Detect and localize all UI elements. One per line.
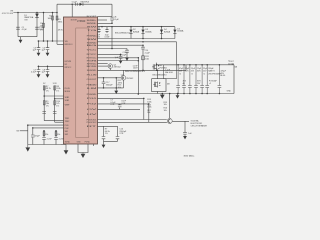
svg-text:4.7µF: 4.7µF: [22, 29, 28, 31]
svg-text:ITH2: ITH2: [65, 128, 69, 130]
svg-text:SS1: SS1: [65, 131, 68, 133]
wire C10 bottom: [32, 137, 34, 144]
capacitor C13b plates: [119, 57, 123, 61]
capacitor COUT6: [205, 65, 209, 94]
svg-text:×2: ×2: [179, 72, 181, 75]
capacitor CB plates: [110, 18, 114, 20]
svg-text:VFB2: VFB2: [65, 100, 70, 102]
ground arrow C3: [37, 53, 41, 56]
svg-text:B260A: B260A: [133, 30, 140, 33]
capacitor C17 plates: [116, 137, 120, 139]
svg-text:PGOOD2: PGOOD2: [87, 122, 97, 124]
resistor R3 box: [56, 16, 58, 20]
ground arrow RT: [102, 145, 106, 148]
resistor R8 box: [54, 86, 56, 90]
capacitor C11 plates: [42, 137, 46, 139]
svg-text:EXTVIN: EXTVIN: [65, 61, 72, 63]
svg-text:100k: 100k: [147, 101, 151, 103]
resistor R2 box: [52, 16, 54, 20]
svg-text:BSC028N06LS3: BSC028N06LS3: [115, 32, 131, 34]
svg-text:SENSE+: SENSE+: [87, 20, 97, 22]
svg-text:X5R: X5R: [185, 71, 189, 73]
zener diode D1: [35, 14, 39, 18]
resistor R7 box: [43, 86, 45, 90]
wire snubber R leg: [98, 27, 100, 33]
svg-text:PHASMD: PHASMD: [87, 83, 98, 86]
wire PGFB drop 2: [148, 104, 150, 122]
ground arrow C13: [125, 57, 129, 60]
capacitor CBST series plates: [75, 3, 77, 6]
svg-text:2N7002: 2N7002: [126, 78, 134, 80]
svg-text:SGND: SGND: [87, 70, 98, 72]
wire FB1 divider chain: [43, 86, 45, 121]
wire FB1 pin: [44, 95, 63, 97]
capacitor COUT2: [182, 65, 186, 94]
svg-text:0.1µF: 0.1µF: [72, 1, 78, 3]
svg-text:2N7002: 2N7002: [114, 67, 122, 69]
svg-text:SS2: SS2: [65, 134, 68, 136]
wire pin row E1: [98, 97, 144, 99]
diode D4: [160, 30, 163, 33]
wire comp R5 leg: [43, 131, 45, 145]
wire SW rail: [98, 26, 175, 28]
wire diode drop D: [174, 27, 176, 39]
wire VIN pin: [38, 40, 64, 42]
capacitor C9 plates: [42, 112, 46, 114]
output capacitor bank: [176, 65, 221, 94]
svg-text:1%: 1%: [46, 90, 49, 92]
svg-text:100k: 100k: [147, 107, 151, 109]
svg-text:×2: ×2: [191, 72, 193, 75]
svg-text:2.2nF: 2.2nF: [59, 138, 65, 140]
svg-text:383k: 383k: [58, 22, 62, 24]
wire pin row A1: [98, 19, 108, 21]
wire Q2 gate link: [98, 77, 122, 79]
transistor M1 power MOSFET top: [152, 64, 159, 70]
wire EXTVCC pin: [98, 57, 139, 59]
svg-text:10k: 10k: [118, 87, 121, 89]
wire C4 hang: [47, 41, 49, 53]
wire INTVCC right pin: [98, 53, 121, 55]
resistor R11 box: [142, 56, 145, 60]
svg-text:SW: SW: [87, 39, 98, 41]
svg-text:EXTVCC: EXTVCC: [87, 58, 98, 60]
wire VOSNS2 pin: [55, 121, 64, 123]
wire sgnd stub: [93, 144, 95, 146]
op-amp U1 controller IC body: [64, 17, 98, 144]
svg-text:5V 8A: 5V 8A: [228, 63, 234, 66]
svg-text:BSC028N06LS3: BSC028N06LS3: [153, 74, 167, 76]
ground arrow comp right: [64, 145, 68, 154]
svg-text:PGFB: PGFB: [87, 61, 98, 63]
svg-text:1%: 1%: [46, 105, 49, 107]
svg-text:INTVCC: INTVCC: [65, 67, 72, 69]
ground arrow R12: [114, 91, 118, 94]
wire diode drop C: [161, 27, 163, 39]
svg-text:2R5TPE330M9: 2R5TPE330M9: [208, 73, 221, 75]
svg-text:PG1: PG1: [87, 98, 97, 100]
wire BST pin drop: [71, 4, 73, 17]
capacitor C12 plates: [54, 137, 58, 139]
resistor R5 box: [43, 132, 45, 136]
svg-text:BOOST: BOOST: [71, 19, 78, 21]
wire diode drop A: [130, 27, 132, 39]
svg-text:1%: 1%: [40, 29, 43, 31]
svg-text:×2: ×2: [203, 72, 205, 75]
ground arrow M2 source: [160, 94, 164, 99]
wire C16 bottom link: [104, 139, 118, 141]
svg-text:CMDSH-3: CMDSH-3: [80, 1, 90, 3]
wire Q1 source stub: [109, 69, 111, 71]
transistor Q1 small MOSFET: [108, 64, 113, 69]
svg-text:SW: SW: [87, 26, 98, 28]
svg-text:SGND: SGND: [65, 141, 71, 143]
resistor R10 box: [54, 101, 56, 105]
wire CT cap leg: [119, 104, 121, 110]
svg-text:470pF: 470pF: [34, 135, 40, 137]
wire gnd stub output: [177, 94, 179, 96]
capacitor RS plates: [141, 47, 145, 49]
capacitor CT plates: [118, 105, 122, 107]
ground arrow C4: [46, 53, 50, 56]
svg-text:EN/UVLO: EN/UVLO: [65, 44, 73, 46]
svg-text:PGND: PGND: [87, 94, 98, 96]
wire TG link rail: [98, 38, 175, 40]
wire M1 drain stub: [156, 63, 158, 65]
resistor R6 box: [55, 132, 57, 136]
svg-text:AL: AL: [183, 82, 185, 85]
svg-text:XAL1010: XAL1010: [165, 71, 173, 74]
wire SW return link: [98, 48, 128, 50]
wire SW return drop: [111, 27, 113, 49]
wire INTVCC pin: [38, 65, 64, 67]
wire FB2 divider chain: [54, 86, 56, 121]
transistor M2 power MOSFET bottom: [153, 82, 160, 88]
capacitor COUT3: [188, 65, 192, 94]
svg-text:3840 TA01a: 3840 TA01a: [184, 154, 196, 157]
svg-text:3300pF: 3300pF: [106, 84, 114, 86]
capacitor C3 plates: [37, 48, 41, 50]
wire ITH2 pin: [33, 127, 64, 129]
svg-text:BOOST: BOOST: [87, 16, 98, 18]
wire boost corner drop: [111, 4, 113, 18]
wire EN divider drop: [56, 13, 58, 45]
svg-text:1%: 1%: [56, 90, 59, 92]
svg-text:PLLIN: PLLIN: [65, 88, 71, 90]
wire BOOST pin: [98, 15, 113, 17]
ground arrow C13b: [119, 60, 123, 63]
wire boost riser: [56, 4, 58, 12]
wire diode drop B: [142, 27, 144, 39]
wire comp C10 leg: [32, 128, 34, 135]
wire C16 leg: [117, 126, 119, 136]
wire BG link: [98, 44, 144, 46]
capacitor COUT5: [200, 65, 204, 94]
wire lower power gnd rail: [98, 93, 235, 95]
capacitor C10 plates: [31, 135, 35, 137]
svg-text:TRK2: TRK2: [65, 121, 70, 123]
capacitor C17b plates: [102, 82, 106, 84]
wire C8 leg: [47, 66, 49, 74]
svg-text:SENSE-: SENSE-: [87, 23, 97, 25]
svg-text:CLKOUT: CLKOUT: [87, 79, 98, 81]
svg-text:3.3V: 3.3V: [53, 83, 58, 85]
capacitor C7 plates: [37, 70, 41, 72]
svg-text:1M: 1M: [40, 26, 43, 28]
capacitor breaker plates: [183, 132, 187, 136]
svg-text:BSC028N06LS3: BSC028N06LS3: [125, 71, 146, 73]
svg-text:B260A: B260A: [164, 30, 171, 33]
svg-text:X7R: X7R: [110, 104, 114, 106]
U1 inner exposed-pad rectangle: [76, 28, 89, 138]
wire FB2 pin: [55, 98, 64, 100]
ground arrow pgnd: [81, 153, 85, 158]
diode D2: [129, 30, 132, 33]
wire PGFB pin: [98, 60, 139, 62]
wire C7 leg: [38, 66, 40, 74]
wire ITH1 pin: [28, 124, 64, 126]
capacitor snubber B plates: [105, 30, 108, 32]
wire C3 hang: [38, 41, 40, 53]
capacitor C8 plates: [46, 70, 50, 72]
resistor R9 box: [43, 101, 45, 105]
wire SS label link: [20, 130, 28, 132]
svg-text:ILIM: ILIM: [87, 88, 98, 90]
wire C4 drop: [52, 13, 54, 42]
wire breaker cap stub: [184, 121, 186, 132]
wire SW link: [98, 41, 177, 43]
svg-text:B260A: B260A: [146, 30, 153, 33]
svg-text:PGOOD1: PGOOD1: [87, 119, 97, 121]
resistor R1 box: [43, 23, 45, 27]
svg-text:B260A: B260A: [177, 30, 184, 33]
wire pin row A2: [98, 22, 113, 24]
wire Q1 drain link: [98, 63, 108, 65]
svg-text:PGND: PGND: [85, 141, 91, 143]
svg-text:PGND: PGND: [87, 35, 98, 37]
boost diode DB: [80, 3, 83, 6]
wire output rail top: [157, 64, 234, 66]
wire R12 divider drop: [115, 78, 117, 91]
svg-text:2.2µF: 2.2µF: [145, 53, 151, 55]
svg-text:1%: 1%: [56, 105, 59, 107]
diode D5: [173, 30, 176, 33]
svg-text:AL EL: AL EL: [221, 74, 226, 77]
svg-text:100V: 100V: [133, 68, 138, 70]
capacitor C1 plates: [16, 27, 20, 29]
wire Q3 collector: [169, 94, 171, 119]
svg-text:2.2nF: 2.2nF: [47, 138, 53, 140]
wire pgnd U shape: [78, 144, 88, 153]
wire mid power rail: [98, 69, 187, 71]
wire input clamp left leg: [17, 13, 19, 37]
wire VOSNS1 pin: [44, 120, 63, 122]
svg-text:PLLIN: PLLIN: [87, 74, 98, 76]
wire pin row E2: [98, 103, 149, 105]
svg-text:1%: 1%: [105, 133, 108, 135]
svg-text:GND: GND: [227, 90, 232, 92]
svg-text:0.5W: 0.5W: [105, 37, 110, 39]
svg-text:10k: 10k: [164, 110, 167, 112]
wire C13 bottom: [126, 52, 128, 57]
svg-text:15k: 15k: [57, 134, 60, 136]
wire M2 loop: [152, 79, 167, 94]
svg-text:GND: GND: [77, 141, 82, 143]
svg-text:VFB1: VFB1: [65, 97, 70, 99]
diode D3: [141, 30, 144, 33]
svg-text:100k: 100k: [47, 18, 51, 20]
inductor L1 series box: [164, 65, 177, 79]
wire lower aux row: [98, 87, 117, 89]
svg-text:X5R: X5R: [197, 71, 201, 73]
svg-text:49.9k: 49.9k: [58, 29, 63, 31]
wire boost top run: [57, 3, 112, 5]
wire Q2 source stub: [116, 80, 123, 88]
ground arrow output: [176, 95, 180, 98]
transistor Q3 NPN: [167, 119, 172, 124]
ground arrow C8: [46, 74, 50, 77]
wire comp network ground rail: [28, 144, 66, 146]
wire pin row E3: [98, 108, 141, 110]
capacitor C4 plates: [46, 48, 50, 50]
svg-text:×2: ×2: [209, 82, 211, 85]
wire CB bottom stub: [111, 20, 113, 23]
svg-text:PG2: PG2: [87, 104, 97, 106]
wire Q1 gate link: [98, 65, 108, 67]
wire PGOOD2 long: [98, 121, 167, 123]
svg-text:TRK1: TRK1: [65, 118, 70, 120]
capacitor snubber A plates: [97, 30, 100, 32]
wire comp left leg: [27, 125, 29, 144]
svg-text:MODE: MODE: [87, 66, 98, 68]
svg-text:SANYO: SANYO: [208, 70, 215, 73]
svg-text:10Ω: 10Ω: [145, 59, 149, 61]
capacitor C13 plates: [125, 50, 129, 52]
wire RS chain: [142, 45, 144, 70]
wire Q2 drain stub: [123, 70, 125, 75]
transistor Q2 small MOSFET: [121, 75, 126, 80]
ground arrow breaker: [183, 136, 187, 139]
wire C17b link: [103, 78, 105, 88]
wire C13 hang: [126, 49, 128, 51]
capacitor COUT7: [218, 65, 222, 94]
wire R1 drop: [43, 13, 45, 42]
svg-text:LT3840: LT3840: [77, 20, 86, 23]
ground arrow C7: [37, 74, 41, 77]
wire Q3 emitter out: [173, 120, 190, 122]
svg-text:15k: 15k: [45, 134, 48, 136]
capacitor COUT4: [194, 65, 198, 94]
capacitor COUT1: [176, 65, 180, 94]
svg-text:10k: 10k: [164, 104, 167, 106]
wire RT bottom: [103, 139, 105, 145]
svg-text:4.7µF: 4.7µF: [31, 72, 37, 74]
wire comp R6 leg: [55, 131, 57, 145]
svg-text:X7R: X7R: [121, 103, 125, 105]
wire sense link: [185, 65, 187, 71]
U1 right pin labels: [87, 16, 100, 128]
svg-text:10k: 10k: [147, 112, 150, 114]
ground arrow input: [19, 40, 23, 43]
svg-text:CIRCUIT BREAKER: CIRCUIT BREAKER: [191, 124, 208, 127]
svg-text:4700pF: 4700pF: [119, 54, 127, 56]
svg-text:ITH1: ITH1: [65, 125, 69, 127]
wire VIN rail: [14, 12, 58, 14]
junction dots: [177, 64, 179, 66]
wire input clamp bottom: [18, 36, 37, 38]
wire PGFB drop 1: [143, 98, 145, 119]
wire input clamp right leg: [36, 13, 38, 37]
wire M2 drain stub: [157, 70, 159, 78]
svg-text:X7R: X7R: [119, 133, 123, 135]
wire IC bottom gnd stub: [61, 143, 63, 146]
svg-text:0.1µF: 0.1µF: [114, 19, 120, 21]
wire PGOOD1 long: [98, 119, 167, 121]
wire output right edge: [233, 65, 235, 94]
wire EXT drop: [137, 58, 139, 94]
wire SW corner drop: [176, 42, 178, 65]
wire input ground stub: [20, 37, 22, 40]
capacitor C16 plates: [102, 137, 106, 139]
wire C13b hang: [120, 54, 122, 56]
capacitor C9b plates: [53, 112, 57, 114]
wire RT leg: [103, 126, 105, 136]
svg-text:MODE: MODE: [65, 91, 71, 93]
svg-text:4.5V TO 60V: 4.5V TO 60V: [2, 13, 14, 15]
wire EN pin: [57, 43, 64, 45]
ground arrow comp left: [26, 145, 30, 152]
svg-text:INTVCC: INTVCC: [87, 54, 98, 56]
wire RT pin: [98, 125, 118, 127]
wire snubber C leg: [106, 27, 108, 33]
capacitor C2 plates: [35, 27, 39, 29]
